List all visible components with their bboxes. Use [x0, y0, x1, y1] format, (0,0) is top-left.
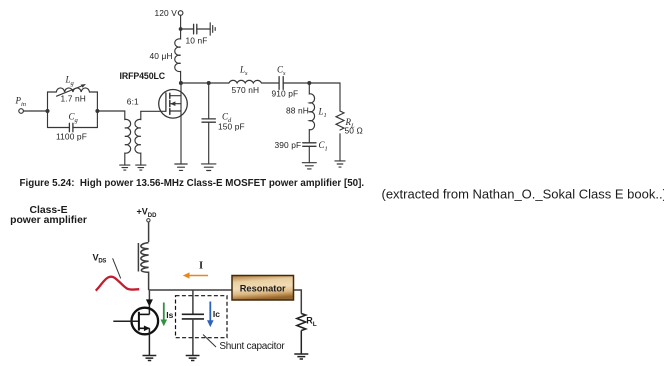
transformer T1 secondary winding [135, 111, 141, 165]
transistor Q1 body lead arrow [171, 103, 181, 105]
svg-text:L1: L1 [318, 107, 327, 120]
svg-text:6:1: 6:1 [127, 97, 139, 107]
svg-text:1100 pF: 1100 pF [56, 132, 87, 142]
wire secondary to gate [141, 110, 166, 112]
svg-text:Cg: Cg [69, 112, 79, 125]
svg-text:Is: Is [166, 310, 173, 320]
svg-text:Pin: Pin [15, 96, 27, 109]
wire source to ground [148, 328, 150, 355]
transistor Q1 gate bar [165, 93, 167, 111]
wire VDD down [148, 222, 150, 242]
svg-text:C1: C1 [319, 140, 328, 153]
ground under RL bottom [294, 354, 308, 359]
capacitor Cd 150pF plates [202, 119, 215, 122]
wire shunt capacitor pointer [203, 335, 216, 348]
node tank right junction dot [95, 109, 99, 113]
svg-text:910 pF: 910 pF [272, 89, 299, 99]
wire Cg bottom rail right [73, 127, 98, 129]
inductor Ls 570nH [229, 80, 261, 83]
inductor core bar [137, 243, 139, 272]
wire Lg variable arrow [57, 86, 83, 97]
svg-text:I: I [199, 261, 203, 272]
wire resonator to RL corner [294, 290, 302, 314]
wire Pin to tank [23, 110, 47, 112]
wire tank to transformer [97, 110, 124, 112]
svg-text:+VDD: +VDD [137, 207, 158, 220]
capacitor Cs 910pF plates [279, 77, 283, 90]
svg-text:390 pF: 390 pF [275, 140, 302, 150]
ground under RL top [335, 161, 345, 167]
resonator box [232, 276, 294, 301]
transistor Q1 drain lead [170, 95, 181, 97]
wire RL to ground [339, 134, 341, 161]
ground under primary [120, 165, 130, 170]
svg-text:Ls: Ls [239, 65, 248, 78]
svg-text:88 nH: 88 nH [286, 106, 309, 116]
svg-text:Resonator: Resonator [240, 283, 286, 293]
inductor Lg 1.7nH [48, 88, 98, 92]
node Cd junction dot [207, 81, 211, 85]
svg-text:Cs: Cs [277, 65, 286, 78]
inductor 40uH choke [175, 29, 181, 83]
inductor RF choke [141, 243, 149, 290]
svg-text:570 nH: 570 nH [232, 85, 260, 95]
wire junction to 10nF cap [181, 28, 194, 30]
ground under Q2 [143, 356, 157, 361]
transistor Q1 IRFP450LC circle [159, 90, 188, 119]
dashed box shunt capacitor [176, 296, 228, 338]
svg-text:Ic: Ic [213, 309, 220, 319]
wire shunt cap to ground [192, 318, 194, 355]
svg-text:VDS: VDS [93, 253, 107, 265]
svg-text:(extracted from Nathan_O._Soka: (extracted from Nathan_O._Sokal Class E … [382, 187, 664, 202]
wire tank left riser [47, 92, 49, 128]
transistor Q2 circle [132, 308, 159, 335]
capacitor C bypass 10nF plates [194, 24, 197, 34]
transistor Q1 source lead [170, 110, 181, 112]
waveform VDS red curve [96, 277, 140, 291]
wire Cg bottom rail left [48, 127, 70, 129]
svg-text:50 Ω: 50 Ω [345, 126, 363, 136]
wire gate lead [113, 320, 139, 322]
wire RL bottom to ground [300, 331, 302, 355]
ground under Cd [202, 164, 216, 171]
wire Cd to ground [208, 122, 210, 164]
ground sideways for 10nF [210, 23, 215, 35]
wire 120V to junction [180, 15, 182, 29]
svg-text:RL: RL [306, 316, 317, 329]
svg-text:Figure 5.24: High power 13.56: Figure 5.24: High power 13.56-MHz Class-… [20, 178, 365, 189]
ground under C1 [302, 163, 316, 169]
transistor Q1 channel segments [169, 93, 171, 114]
capacitor Cg 1100pF plates [69, 123, 73, 131]
inductor L1 88nH [309, 83, 314, 143]
wire shunt cap tap [192, 290, 194, 314]
svg-text:IRFP450LC: IRFP450LC [120, 71, 166, 81]
svg-text:1.7 nH: 1.7 nH [61, 94, 86, 104]
svg-text:Shunt capacitor: Shunt capacitor [219, 341, 285, 352]
resistor RL bottom zigzag [297, 314, 306, 331]
transformer T1 primary winding [125, 111, 131, 165]
svg-text:Lg: Lg [65, 75, 75, 88]
wire drain down with arrow [148, 290, 150, 300]
svg-text:120 V: 120 V [155, 8, 178, 18]
wire main node line [149, 289, 232, 291]
node Pin terminal [19, 109, 24, 114]
wire 10nF to ground [197, 28, 210, 30]
wire tank right riser [96, 92, 98, 128]
ground under shunt cap [186, 356, 200, 361]
node VDD 120V terminal [178, 11, 183, 16]
node L1 junction dot [307, 81, 311, 85]
capacitor shunt plates [182, 314, 204, 319]
arrow I orange [188, 275, 208, 277]
node drain junction dot [179, 81, 183, 85]
capacitor C1 390pF plates [303, 143, 316, 147]
svg-text:150 pF: 150 pF [218, 122, 245, 132]
wire C1 to ground [308, 146, 310, 162]
node +VDD terminal [147, 219, 150, 222]
transistor Q2 drain lead [139, 313, 150, 315]
wire drain node to Cd node [181, 82, 209, 84]
node bypass junction dot [179, 27, 183, 31]
arrow Is green [163, 303, 165, 321]
arrow Ic blue [209, 302, 211, 322]
ground under Q1 source [175, 164, 187, 170]
transistor Q2 source lead arrow [139, 327, 150, 329]
svg-text:40 μH: 40 μH [150, 51, 173, 61]
ground under secondary [136, 165, 146, 170]
wire Ls to Cs [262, 82, 280, 84]
resistor RL 50ohm zigzag [336, 111, 344, 130]
wire L1 node to RL corner [309, 83, 340, 111]
wire Cs to L1 node [283, 82, 309, 84]
wire Cd node to Ls [209, 82, 229, 84]
wire node to Cd [208, 83, 210, 119]
wire drain-source vertical [180, 83, 182, 164]
transistor Q2 gate bar [138, 312, 140, 331]
svg-text:10 nF: 10 nF [186, 36, 208, 46]
wire VDS pointer [113, 258, 121, 278]
svg-text:power amplifier: power amplifier [10, 215, 87, 226]
node tank left junction dot [46, 109, 50, 113]
